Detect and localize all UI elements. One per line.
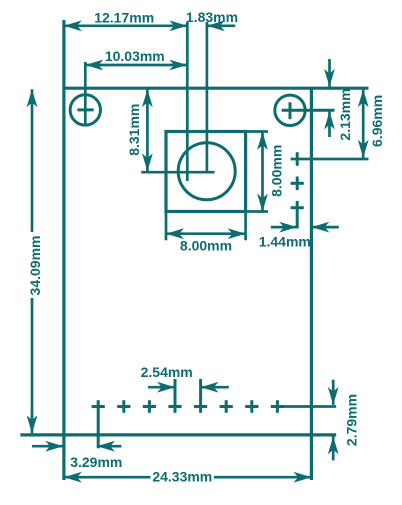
svg-text:12.17mm: 12.17mm bbox=[94, 9, 154, 25]
svg-text:24.33mm: 24.33mm bbox=[152, 469, 212, 485]
svg-text:2.79mm: 2.79mm bbox=[344, 394, 360, 446]
svg-text:2.54mm: 2.54mm bbox=[141, 364, 193, 380]
svg-text:3.29mm: 3.29mm bbox=[70, 454, 122, 470]
svg-text:10.03mm: 10.03mm bbox=[105, 48, 165, 64]
svg-text:34.09mm: 34.09mm bbox=[27, 236, 43, 296]
svg-text:2.13mm: 2.13mm bbox=[337, 88, 353, 140]
svg-text:8.00mm: 8.00mm bbox=[180, 237, 232, 253]
svg-text:1.83mm: 1.83mm bbox=[186, 9, 238, 25]
svg-text:8.31mm: 8.31mm bbox=[126, 104, 142, 156]
svg-text:8.00mm: 8.00mm bbox=[269, 145, 285, 197]
svg-text:1.44mm: 1.44mm bbox=[259, 233, 311, 249]
svg-text:6.96mm: 6.96mm bbox=[369, 95, 385, 147]
